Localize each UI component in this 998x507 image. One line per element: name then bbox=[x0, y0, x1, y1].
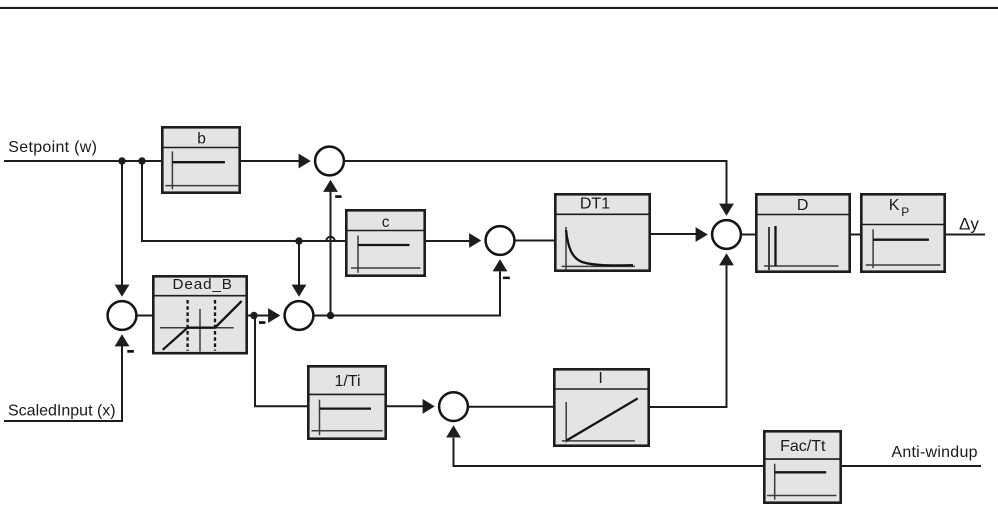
svg-text:1/Ti: 1/Ti bbox=[334, 373, 360, 390]
svg-text:b: b bbox=[197, 131, 206, 148]
svg-text:DT1: DT1 bbox=[580, 196, 610, 213]
svg-text:Anti-windup: Anti-windup bbox=[891, 444, 977, 461]
svg-text:P: P bbox=[901, 205, 909, 219]
svg-text:K: K bbox=[889, 197, 900, 214]
svg-text:ScaledInput (x): ScaledInput (x) bbox=[8, 402, 116, 419]
svg-text:D: D bbox=[797, 197, 809, 214]
svg-text:c: c bbox=[382, 214, 390, 231]
svg-text:Fac/Tt: Fac/Tt bbox=[780, 438, 826, 455]
svg-text:Setpoint (w): Setpoint (w) bbox=[8, 139, 97, 156]
svg-text:Dead_B: Dead_B bbox=[173, 276, 233, 293]
svg-text:I: I bbox=[598, 370, 602, 387]
svg-text:Δy: Δy bbox=[959, 215, 979, 234]
